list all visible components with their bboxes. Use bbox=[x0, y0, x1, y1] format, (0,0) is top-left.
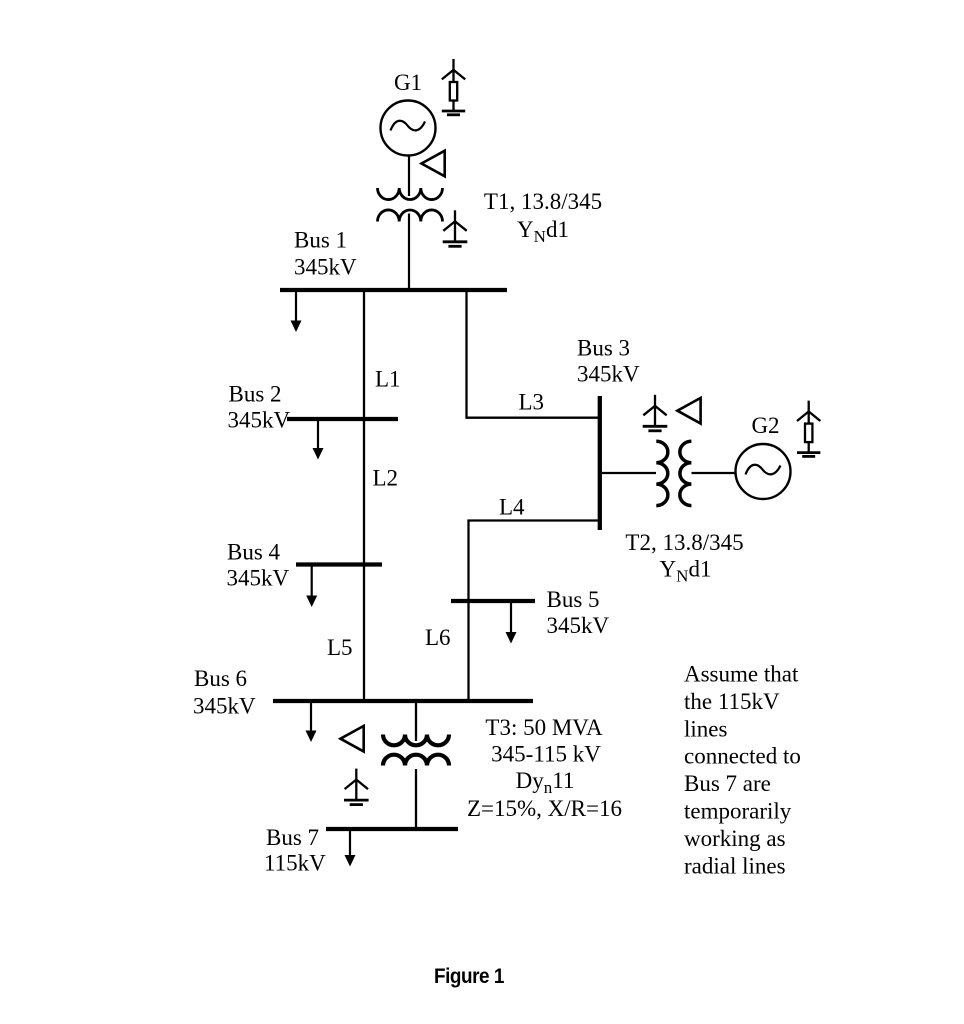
svg-text:Bus 4: Bus 4 bbox=[227, 540, 281, 565]
svg-text:345-115 kV: 345-115 kV bbox=[491, 742, 601, 767]
svg-text:345kV: 345kV bbox=[547, 613, 610, 638]
svg-text:L6: L6 bbox=[425, 625, 451, 650]
svg-text:Bus 1: Bus 1 bbox=[294, 228, 347, 253]
svg-text:T2, 13.8/345: T2, 13.8/345 bbox=[625, 530, 743, 555]
svg-text:YNd1: YNd1 bbox=[517, 217, 569, 246]
svg-text:lines: lines bbox=[684, 716, 727, 741]
svg-text:L5: L5 bbox=[327, 635, 353, 660]
svg-text:Bus 7 are: Bus 7 are bbox=[684, 771, 771, 796]
svg-text:Figure 1: Figure 1 bbox=[434, 965, 505, 988]
svg-text:L3: L3 bbox=[519, 389, 545, 414]
svg-text:T3: 50 MVA: T3: 50 MVA bbox=[485, 715, 603, 740]
svg-text:YNd1: YNd1 bbox=[660, 557, 712, 586]
svg-text:L1: L1 bbox=[375, 367, 401, 392]
svg-text:the 115kV: the 115kV bbox=[684, 689, 780, 714]
svg-text:G1: G1 bbox=[394, 70, 422, 95]
svg-text:345kV: 345kV bbox=[577, 362, 640, 387]
svg-text:radial lines: radial lines bbox=[684, 853, 786, 878]
svg-text:Bus 2: Bus 2 bbox=[229, 382, 282, 407]
svg-text:L2: L2 bbox=[373, 466, 399, 491]
svg-text:115kV: 115kV bbox=[264, 851, 326, 876]
svg-text:345kV: 345kV bbox=[227, 566, 290, 591]
svg-text:working as: working as bbox=[684, 826, 786, 851]
svg-text:Bus 7: Bus 7 bbox=[266, 825, 319, 850]
svg-text:345kV: 345kV bbox=[294, 255, 357, 280]
svg-text:G2: G2 bbox=[751, 413, 779, 438]
svg-text:Assume that: Assume that bbox=[684, 662, 799, 687]
svg-text:T1, 13.8/345: T1, 13.8/345 bbox=[484, 189, 602, 214]
svg-text:L4: L4 bbox=[499, 495, 525, 520]
svg-text:Bus 5: Bus 5 bbox=[547, 587, 600, 612]
svg-text:Dyn11: Dyn11 bbox=[516, 768, 575, 797]
svg-text:Z=15%, X/R=16: Z=15%, X/R=16 bbox=[467, 796, 622, 821]
svg-text:345kV: 345kV bbox=[193, 694, 256, 719]
svg-text:345kV: 345kV bbox=[228, 408, 291, 433]
svg-text:temporarily: temporarily bbox=[684, 799, 792, 824]
svg-text:Bus 3: Bus 3 bbox=[577, 336, 630, 361]
svg-text:connected to: connected to bbox=[684, 744, 801, 769]
svg-text:Bus 6: Bus 6 bbox=[194, 666, 247, 691]
